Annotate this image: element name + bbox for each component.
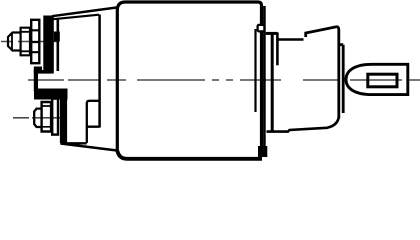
bracket horizontal lower — [67, 142, 87, 144]
rear cap lever top — [306, 27, 339, 119]
lower bracket flange top — [34, 89, 68, 100]
lower nut — [41, 101, 53, 133]
rear cap top edge lower tier — [276, 38, 303, 41]
upper nut flats — [20, 32, 32, 52]
centerline lower terminal — [13, 117, 64, 119]
centerline upper terminal — [1, 41, 57, 43]
upper terminal stud tip — [8, 33, 20, 51]
lower nut flats — [41, 106, 53, 127]
flange tab — [87, 101, 100, 143]
upper washer stack — [31, 20, 39, 63]
step cap upper tier — [34, 67, 42, 74]
step left edge — [34, 70, 38, 92]
flange upper slope front — [52, 15, 99, 20]
rear cap top step vertical (line B) — [276, 32, 279, 65]
dark patch behind nut — [54, 32, 60, 42]
lower washer — [52, 99, 58, 135]
plunger inner rect — [368, 74, 397, 87]
stud tip inner line — [11, 33, 13, 50]
rear cap top edge upper tier — [266, 32, 278, 35]
washer stack rungs — [31, 30, 39, 52]
body bottom line — [117, 151, 262, 159]
flange bottom slope — [61, 144, 118, 151]
upper nut — [20, 27, 32, 57]
flange inner face line — [56, 19, 59, 71]
body inner right line — [254, 29, 256, 112]
seam bar foot — [258, 146, 267, 157]
plunger bullet outline — [346, 64, 408, 94]
rear cap bottom — [267, 117, 339, 132]
main body outline — [117, 2, 261, 156]
centerline main axis — [28, 79, 420, 81]
flange right edge — [98, 15, 101, 128]
step cap — [35, 70, 54, 74]
rear cap right inner edge — [339, 45, 343, 113]
lower bracket bar — [60, 92, 67, 143]
body seam line 2 — [263, 6, 266, 152]
seam knob — [258, 25, 265, 32]
lower terminal stud tip — [34, 109, 40, 127]
rear cap inner line A — [271, 33, 274, 131]
flange bar upper (filled) — [43, 16, 54, 74]
flange upper slope back — [52, 8, 117, 17]
